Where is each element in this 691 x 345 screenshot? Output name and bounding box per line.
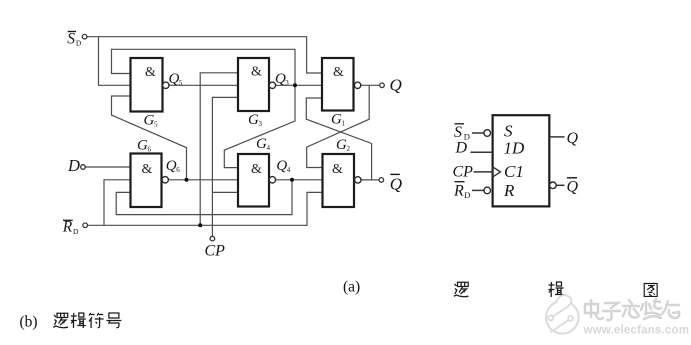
gate G6 (131, 154, 169, 208)
wire Q output of symbol (549, 136, 564, 138)
svg-text:&: & (332, 162, 343, 177)
label Qbar output (390, 174, 402, 193)
svg-text:G: G (331, 112, 342, 128)
svg-text:Q: Q (166, 158, 177, 174)
svg-text:CP: CP (205, 243, 226, 260)
svg-text:6: 6 (148, 146, 152, 154)
svg-text:5: 5 (179, 79, 183, 87)
caption (b) char fu (89, 313, 104, 328)
bubble on R input (484, 187, 491, 194)
terminal D (81, 165, 86, 170)
svg-text:Q: Q (567, 179, 579, 196)
node Q4 (290, 178, 294, 182)
wire Q3 output to G1 middle input (276, 84, 322, 86)
svg-text:Q: Q (390, 174, 402, 193)
caption (a) char ji (549, 282, 564, 297)
wire S_D branch to G5 middle input (99, 37, 131, 86)
svg-text:G: G (144, 113, 155, 129)
caption (b) char luo2 (53, 313, 68, 327)
watermark char fa (623, 300, 639, 318)
watermark logo circle (546, 295, 579, 334)
terminal Q (380, 83, 385, 88)
svg-text:Q: Q (390, 76, 402, 95)
label R_D input (62, 219, 79, 236)
svg-text:C1: C1 (504, 162, 524, 181)
watermark char shao (641, 299, 661, 319)
wire Q3 to G4 top input (224, 85, 295, 167)
svg-text:6: 6 (176, 166, 180, 174)
wire Q4 feedback to G6 bottom input (116, 180, 292, 215)
svg-text:R: R (62, 219, 73, 236)
svg-text:G: G (248, 112, 259, 128)
svg-text:G: G (137, 138, 148, 154)
svg-text:D: D (455, 140, 468, 157)
wire Q output (361, 84, 380, 86)
wire R_D input to G2 bottom input (88, 192, 323, 225)
wire S_D input to G1 top input (87, 37, 322, 73)
dynamic clock triangle C1 (493, 167, 501, 177)
caption (b) char ji2 (71, 313, 86, 328)
watermark char you (662, 301, 679, 318)
wire CP to G3 bottom input (212, 97, 238, 236)
svg-text:4: 4 (267, 144, 271, 152)
terminal CP (210, 236, 215, 241)
wire S_D to box (472, 132, 484, 134)
svg-text:D: D (464, 190, 470, 200)
label Q6 (166, 158, 180, 174)
svg-text:www.elecfans.com: www.elecfans.com (583, 325, 690, 337)
wire R_D branch to G6 middle input (104, 180, 131, 226)
wire CP branch to G4 bottom input (212, 191, 238, 193)
svg-text:D: D (73, 227, 79, 236)
gate G1 (322, 58, 361, 111)
svg-text:4: 4 (287, 166, 291, 174)
svg-text:Q: Q (567, 130, 579, 147)
terminal S_D (82, 34, 87, 39)
svg-text:G: G (336, 137, 347, 153)
wire Q4 output to G2 middle input (276, 179, 323, 181)
flip-flop box U1 (493, 115, 550, 206)
caption (a) char luo (454, 282, 469, 296)
svg-text:(a): (a) (343, 279, 360, 296)
wire Qbar output of symbol (556, 184, 564, 186)
label Q5 (169, 71, 183, 87)
label Qbar symbol output (567, 178, 579, 196)
wire Q feedback to G2 top input (307, 85, 370, 167)
label G2 (336, 137, 351, 153)
svg-text:&: & (251, 65, 262, 80)
label Q4 (276, 158, 290, 174)
svg-text:G: G (256, 136, 267, 152)
svg-text:1D: 1D (504, 139, 526, 158)
node Q3 (293, 83, 297, 87)
svg-text:3: 3 (259, 120, 263, 128)
wire Qbar output (361, 179, 379, 181)
node Q6 (185, 178, 189, 182)
svg-text:S: S (454, 124, 462, 141)
svg-text:R: R (503, 181, 515, 200)
label G6 (137, 138, 152, 154)
caption (a) char tu (644, 284, 657, 297)
svg-text:1: 1 (342, 120, 346, 128)
label G1 (331, 112, 346, 128)
label S_D input (67, 30, 82, 47)
label G5 (144, 113, 159, 129)
label R_D symbol input (453, 182, 470, 200)
wire Q6 output to G4 middle input (168, 179, 238, 181)
wire R_D to box (472, 189, 484, 191)
caption (b) char hao (106, 313, 121, 328)
gate G3 (238, 58, 276, 111)
svg-text:3: 3 (285, 79, 289, 87)
gate G4 (238, 154, 276, 207)
svg-text:R: R (453, 183, 464, 200)
svg-text:Q: Q (276, 158, 287, 174)
wire D input to G6 (85, 166, 130, 168)
wire D to box (471, 151, 493, 153)
svg-text:5: 5 (154, 121, 158, 129)
terminal Qbar (379, 178, 384, 183)
label S_D symbol input (454, 124, 470, 142)
wire Q3 feedback to G5 top input (112, 49, 296, 85)
svg-text:&: & (251, 162, 262, 177)
node R_D / G3 branch (198, 223, 202, 227)
svg-text:D: D (67, 156, 80, 175)
wire Qbar feedback to G1 bottom input (306, 98, 371, 180)
bubble on S input (484, 130, 491, 137)
wire Q5 output to G3 (169, 84, 238, 86)
svg-text:S: S (67, 30, 75, 47)
watermark char zi (603, 303, 620, 320)
svg-text:(b): (b) (20, 314, 38, 331)
wire Q6 feedback to G5 bottom input (112, 96, 187, 180)
svg-text:2: 2 (347, 145, 351, 153)
bubble on Qbar output (550, 182, 557, 189)
watermark char dian (585, 299, 679, 320)
svg-text:D: D (76, 39, 82, 48)
wire CP to box (474, 171, 493, 173)
gate G5 (131, 58, 170, 112)
label Q3 (275, 71, 289, 87)
label G4 (256, 136, 271, 152)
svg-text:CP: CP (453, 164, 474, 181)
gate G2 (323, 154, 361, 207)
terminal R_D (83, 223, 88, 228)
label G3 (248, 112, 263, 128)
wire R_D branch to G3 top input (200, 73, 238, 226)
svg-text:&: & (142, 162, 153, 177)
svg-text:&: & (333, 65, 344, 80)
svg-text:&: & (145, 65, 156, 80)
